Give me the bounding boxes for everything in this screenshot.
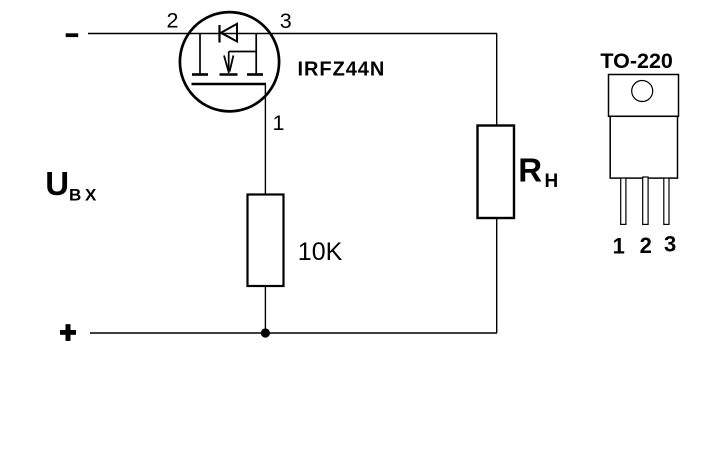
label plus terminal xyxy=(60,330,76,335)
svg-text:R: R xyxy=(518,152,542,189)
package leg 2 xyxy=(643,177,648,224)
svg-text:1: 1 xyxy=(273,111,285,135)
package mounting hole xyxy=(632,81,653,102)
transistor Q1 substrate arrow shaft xyxy=(228,52,230,74)
svg-text:TO-220: TO-220 xyxy=(600,49,673,73)
svg-text:2: 2 xyxy=(640,233,652,258)
transistor Q1 substrate connector xyxy=(229,51,257,53)
node A junction dot xyxy=(261,328,270,337)
diode D body-diode cathode bar xyxy=(218,25,220,43)
package leg 1 xyxy=(621,178,626,224)
transistor Q1 gate line xyxy=(192,83,267,86)
transistor Q1 source channel tick xyxy=(192,73,208,76)
resistor R1 10K body xyxy=(248,195,284,287)
package leg 3 xyxy=(664,178,669,224)
svg-text:3: 3 xyxy=(280,9,292,33)
svg-text:1: 1 xyxy=(613,233,625,258)
transistor Q1 substrate arrowhead xyxy=(224,56,229,72)
svg-text:3: 3 xyxy=(664,232,676,257)
svg-text:2: 2 xyxy=(167,9,179,33)
svg-text:10K: 10K xyxy=(298,238,343,266)
transistor Q1 source lead xyxy=(199,34,201,75)
svg-text:ВХ: ВХ xyxy=(69,186,101,205)
svg-text:U: U xyxy=(45,165,69,202)
wire gate to 10K resistor xyxy=(264,84,266,195)
diode D body-diode triangle xyxy=(221,24,237,42)
wire bottom rail xyxy=(90,332,497,334)
package tab xyxy=(609,75,679,117)
transistor Q1 drain channel tick xyxy=(247,73,263,76)
resistor RH body xyxy=(478,126,515,219)
transistor Q1 circle envelope xyxy=(180,12,279,111)
svg-text:Н: Н xyxy=(545,171,559,192)
svg-text:IRFZ44N: IRFZ44N xyxy=(298,59,386,81)
transistor Q1 middle channel tick xyxy=(220,73,238,76)
label minus terminal xyxy=(66,33,79,37)
transistor Q1 drain lead xyxy=(255,34,257,75)
wire right rail xyxy=(496,34,498,334)
wire 10K resistor to bottom rail xyxy=(264,286,266,333)
package body xyxy=(610,116,677,178)
wire top rail from minus terminal to top-right corner xyxy=(88,33,497,35)
